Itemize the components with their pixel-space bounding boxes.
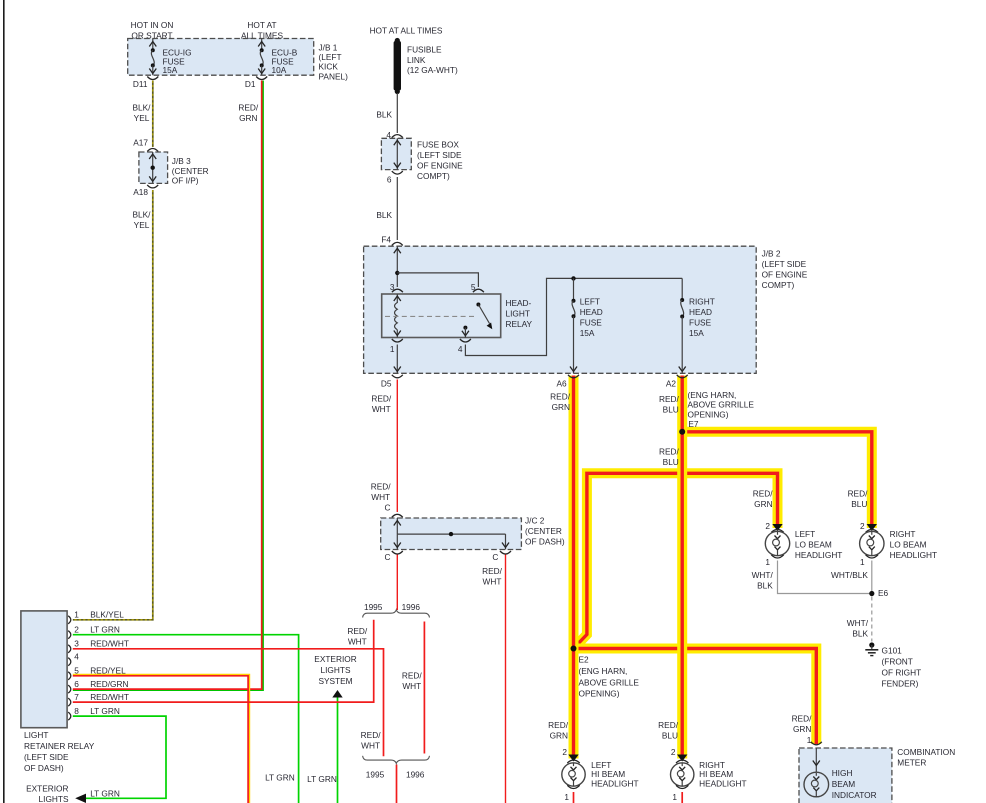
pin 1 retainer xyxy=(68,616,71,624)
junction block J/B 2 box xyxy=(364,246,757,373)
svg-text:EXTERIOR: EXTERIOR xyxy=(26,784,68,794)
svg-text:LIGHTS: LIGHTS xyxy=(321,665,351,675)
svg-text:LIGHT: LIGHT xyxy=(24,730,48,740)
combination meter box xyxy=(799,748,892,803)
svg-text:YEL: YEL xyxy=(134,113,150,123)
relay box (headlight relay) xyxy=(382,294,501,338)
svg-text:1: 1 xyxy=(765,557,770,567)
svg-text:SYSTEM: SYSTEM xyxy=(318,676,352,686)
svg-text:C: C xyxy=(492,552,498,562)
svg-text:10A: 10A xyxy=(272,65,287,75)
svg-text:D1: D1 xyxy=(245,79,256,89)
svg-text:BLK: BLK xyxy=(376,110,392,120)
node E7 xyxy=(679,429,685,435)
svg-text:LT GRN: LT GRN xyxy=(265,773,295,783)
svg-text:E6: E6 xyxy=(878,588,889,598)
svg-text:RETAINER RELAY: RETAINER RELAY xyxy=(24,741,95,751)
svg-text:FUSIBLE: FUSIBLE xyxy=(407,45,442,55)
svg-text:RED/: RED/ xyxy=(848,489,869,499)
wire RED/BLU A2 to right hi beam (highlighted) xyxy=(677,376,687,759)
svg-text:(LEFT: (LEFT xyxy=(319,52,342,62)
svg-text:BLK/: BLK/ xyxy=(133,210,152,220)
svg-text:2: 2 xyxy=(562,747,567,757)
junction connector J/C 2 box xyxy=(381,518,522,550)
relay LIGHT RETAINER RELAY box xyxy=(21,611,67,728)
svg-text:2: 2 xyxy=(765,521,770,531)
svg-text:A18: A18 xyxy=(133,187,148,197)
svg-text:OPENING): OPENING) xyxy=(579,689,620,699)
wire RED/WHT J/C2 right C down xyxy=(505,554,507,803)
fuse ECU-B 10A xyxy=(256,39,267,80)
wire RED/GRN A6 to left hi beam (highlighted) xyxy=(569,376,579,759)
svg-text:15A: 15A xyxy=(163,65,178,75)
svg-text:GRN: GRN xyxy=(552,402,570,412)
wire BLK/YEL D11-A17 xyxy=(152,81,154,148)
svg-text:HEADLIGHT: HEADLIGHT xyxy=(591,779,638,789)
svg-text:J/B 3: J/B 3 xyxy=(172,156,191,166)
relay switch xyxy=(462,303,492,338)
bracket 1995/1996 merge (bottom) xyxy=(363,756,430,764)
svg-text:LT GRN: LT GRN xyxy=(90,706,120,716)
svg-text:RED/GRN: RED/GRN xyxy=(90,679,128,689)
svg-text:GRN: GRN xyxy=(550,731,568,741)
svg-text:J/B 1: J/B 1 xyxy=(319,42,338,52)
svg-text:BLK: BLK xyxy=(852,629,868,639)
pin 8 retainer xyxy=(68,712,71,720)
svg-text:A6: A6 xyxy=(556,379,567,389)
fuse ECU-IG 15A xyxy=(147,39,158,80)
ground G101 xyxy=(865,642,878,655)
svg-text:OF RIGHT: OF RIGHT xyxy=(882,668,922,678)
svg-text:6: 6 xyxy=(387,174,392,184)
svg-text:OF ENGINE: OF ENGINE xyxy=(417,161,463,171)
wire RED/WHT pin7 up to 1995 branch xyxy=(73,620,374,702)
junction block J/B 3 box xyxy=(139,152,168,183)
svg-text:BLU: BLU xyxy=(663,404,679,414)
svg-text:HOT AT ALL TIMES: HOT AT ALL TIMES xyxy=(370,26,443,36)
svg-text:BLK/: BLK/ xyxy=(133,103,152,113)
svg-text:RED/: RED/ xyxy=(371,482,392,492)
svg-text:BLU: BLU xyxy=(663,457,679,467)
svg-text:EXTERIOR: EXTERIOR xyxy=(314,654,356,664)
svg-text:WHT: WHT xyxy=(361,741,380,751)
wire RED/WHT D5 to J/C2 xyxy=(396,380,398,513)
svg-text:COMBINATION: COMBINATION xyxy=(897,747,955,757)
page left border xyxy=(3,0,5,803)
svg-text:PANEL): PANEL) xyxy=(319,71,349,81)
svg-text:D5: D5 xyxy=(381,379,392,389)
node E6 xyxy=(869,591,874,596)
svg-text:RED/: RED/ xyxy=(482,566,503,576)
svg-text:COMPT): COMPT) xyxy=(417,171,450,181)
svg-text:RED/: RED/ xyxy=(659,446,680,456)
svg-text:1995: 1995 xyxy=(366,769,385,779)
svg-text:WHT/: WHT/ xyxy=(847,618,869,628)
svg-text:OPENING): OPENING) xyxy=(688,409,729,419)
svg-text:LINK: LINK xyxy=(407,55,426,65)
svg-text:INDICATOR: INDICATOR xyxy=(832,790,877,800)
bracket 1995/1996 split (top) xyxy=(363,610,430,618)
svg-text:2: 2 xyxy=(860,521,865,531)
svg-text:RED/: RED/ xyxy=(238,103,259,113)
svg-text:OF ENGINE: OF ENGINE xyxy=(762,270,808,280)
svg-text:1995: 1995 xyxy=(364,602,383,612)
svg-text:(FRONT: (FRONT xyxy=(882,657,913,667)
svg-text:WHT: WHT xyxy=(402,681,421,691)
arrow exterior lights system (up) xyxy=(332,690,342,698)
svg-text:1: 1 xyxy=(807,735,812,745)
svg-text:7: 7 xyxy=(74,692,79,702)
svg-text:C: C xyxy=(385,503,391,513)
wire RED/WHT 1996 branch xyxy=(423,622,425,754)
svg-text:(12 GA-WHT): (12 GA-WHT) xyxy=(407,65,458,75)
svg-text:D11: D11 xyxy=(133,79,148,89)
wire RED/BLU E7 to right lo beam (highlighted) xyxy=(682,432,872,528)
svg-text:(LEFT SIDE: (LEFT SIDE xyxy=(24,752,69,762)
svg-text:ABOVE GRRILLE: ABOVE GRRILLE xyxy=(688,400,755,410)
svg-text:LO BEAM: LO BEAM xyxy=(890,540,927,550)
wire WHT/BLK E6 to G101 (dashed) xyxy=(871,597,873,642)
fusible link 12 GA-WHT xyxy=(394,38,401,94)
wire relay pin1 to D5 xyxy=(394,345,401,374)
svg-text:LT GRN: LT GRN xyxy=(90,625,120,635)
svg-text:HEAD: HEAD xyxy=(580,307,603,317)
svg-text:RED/: RED/ xyxy=(658,720,679,730)
svg-text:4: 4 xyxy=(458,344,463,354)
svg-text:LT GRN: LT GRN xyxy=(307,774,337,784)
svg-text:FUSE: FUSE xyxy=(580,318,603,328)
wire LT GRN exterior lights system xyxy=(337,697,339,803)
svg-text:KICK: KICK xyxy=(319,62,339,72)
svg-text:RED/: RED/ xyxy=(548,720,569,730)
svg-text:HEADLIGHT: HEADLIGHT xyxy=(699,779,746,789)
svg-text:RED/: RED/ xyxy=(550,392,571,402)
wire RED/GRN branch to left lo beam (highlighted) xyxy=(574,473,778,648)
lamp HIGH BEAM INDICATOR xyxy=(804,748,829,797)
svg-text:RED/: RED/ xyxy=(792,713,813,723)
svg-text:BLK/YEL: BLK/YEL xyxy=(90,610,124,620)
arrow exterior lights (left) xyxy=(75,794,86,803)
svg-text:5: 5 xyxy=(74,666,79,676)
lamp RIGHT HI BEAM HEADLIGHT xyxy=(671,747,694,803)
wire F4 to relay pin 3 xyxy=(394,246,401,287)
pin 6 retainer xyxy=(68,685,71,693)
svg-text:HIGH: HIGH xyxy=(832,768,853,778)
svg-text:2: 2 xyxy=(74,625,79,635)
svg-text:LEFT: LEFT xyxy=(795,529,815,539)
svg-text:(ENG HARN,: (ENG HARN, xyxy=(579,666,628,676)
node E2 xyxy=(571,646,577,652)
svg-text:HOT IN ON: HOT IN ON xyxy=(131,20,174,30)
svg-text:FUSE BOX: FUSE BOX xyxy=(417,140,459,150)
svg-text:(CENTER: (CENTER xyxy=(172,166,209,176)
svg-text:BLU: BLU xyxy=(851,499,867,509)
svg-text:HEAD-: HEAD- xyxy=(506,298,532,308)
svg-text:WHT: WHT xyxy=(483,576,502,586)
svg-text:E2: E2 xyxy=(579,655,590,665)
svg-text:C: C xyxy=(385,552,391,562)
svg-text:2: 2 xyxy=(671,747,676,757)
wire LT GRN pin8 to exterior lights arrow xyxy=(73,716,166,798)
svg-text:1: 1 xyxy=(672,792,677,802)
fuse RIGHT HEAD 15A xyxy=(679,278,686,373)
svg-text:1996: 1996 xyxy=(406,769,425,779)
svg-text:(LEFT SIDE: (LEFT SIDE xyxy=(417,150,462,160)
svg-text:RED/: RED/ xyxy=(659,394,680,404)
svg-text:1: 1 xyxy=(74,610,79,620)
svg-text:RED/: RED/ xyxy=(347,626,368,636)
svg-text:WHT: WHT xyxy=(372,404,391,414)
svg-text:GRN: GRN xyxy=(793,724,811,734)
svg-text:HOT AT: HOT AT xyxy=(247,20,276,30)
svg-text:(CENTER: (CENTER xyxy=(525,526,562,536)
svg-text:(ENG HARN,: (ENG HARN, xyxy=(688,390,737,400)
svg-text:FENDER): FENDER) xyxy=(882,679,919,689)
fuse LEFT HEAD 15A xyxy=(570,278,577,373)
svg-text:4: 4 xyxy=(74,652,79,662)
svg-text:1: 1 xyxy=(860,557,865,567)
lamp LEFT LO BEAM HEADLIGHT xyxy=(765,521,789,567)
wire RED/GRN E2 to high beam indicator (highlighted) xyxy=(574,649,817,745)
svg-text:LT GRN: LT GRN xyxy=(90,789,120,799)
svg-text:YEL: YEL xyxy=(134,220,150,230)
svg-text:WHT: WHT xyxy=(348,636,367,646)
wire junction to relay pin 5 xyxy=(397,273,478,287)
pin 4 retainer xyxy=(68,658,71,666)
wire BLK fusible link to fuse box xyxy=(396,93,398,133)
svg-text:G101: G101 xyxy=(882,646,903,656)
svg-text:HEADLIGHT: HEADLIGHT xyxy=(795,550,842,560)
svg-text:RED/: RED/ xyxy=(361,730,382,740)
wire RED/YEL pin5 xyxy=(73,674,250,803)
svg-text:LO BEAM: LO BEAM xyxy=(795,540,832,550)
svg-text:J/B 2: J/B 2 xyxy=(762,249,781,259)
relay armature dashed link xyxy=(385,315,474,317)
wire RED/WHT below merge bracket xyxy=(396,765,398,803)
fuse box (left side of engine compt) xyxy=(381,138,411,169)
wire BLK fuse box to F4 xyxy=(396,177,398,240)
svg-text:3: 3 xyxy=(74,639,79,649)
svg-text:BLK: BLK xyxy=(757,581,773,591)
lamp LEFT HI BEAM HEADLIGHT xyxy=(562,747,585,803)
svg-text:RED/: RED/ xyxy=(402,671,423,681)
wire RED/WHT pin3 down to 1995/96 merge xyxy=(73,649,384,757)
lamp RIGHT LO BEAM HEADLIGHT xyxy=(860,521,884,567)
pin 7 retainer xyxy=(68,698,71,706)
svg-text:BLK: BLK xyxy=(376,210,392,220)
svg-text:COMPT): COMPT) xyxy=(762,280,795,290)
svg-text:1: 1 xyxy=(564,792,569,802)
svg-text:1996: 1996 xyxy=(402,602,421,612)
svg-text:RIGHT: RIGHT xyxy=(890,529,916,539)
svg-text:RIGHT: RIGHT xyxy=(689,297,715,307)
svg-text:OF DASH): OF DASH) xyxy=(525,537,565,547)
svg-text:GRN: GRN xyxy=(239,113,257,123)
wire BLK/YEL A18-pin1 xyxy=(73,190,153,620)
svg-text:ABOVE GRILLE: ABOVE GRILLE xyxy=(579,677,640,687)
svg-text:WHT/BLK: WHT/BLK xyxy=(831,570,868,580)
svg-text:A2: A2 xyxy=(666,379,677,389)
svg-text:1: 1 xyxy=(390,344,395,354)
wire LT GRN pin2 to exterior lights xyxy=(73,635,299,803)
junction block J/B 1 box xyxy=(128,39,314,76)
svg-text:FUSE: FUSE xyxy=(689,318,712,328)
wire RED/WHT J/C2 left C to split bracket xyxy=(396,554,398,610)
svg-text:HEAD: HEAD xyxy=(689,307,712,317)
svg-text:LIGHTS: LIGHTS xyxy=(39,794,69,803)
svg-text:8: 8 xyxy=(74,706,79,716)
svg-text:A17: A17 xyxy=(133,138,148,148)
svg-text:RED/WHT: RED/WHT xyxy=(90,639,129,649)
svg-text:HEADLIGHT: HEADLIGHT xyxy=(890,550,937,560)
svg-text:OF I/P): OF I/P) xyxy=(172,176,199,186)
pin 3 retainer xyxy=(68,645,71,653)
svg-text:RED/: RED/ xyxy=(371,394,392,404)
svg-text:WHT: WHT xyxy=(371,492,390,502)
svg-text:BEAM: BEAM xyxy=(832,779,856,789)
wire WHT/BLK lo beams to E6 xyxy=(778,561,872,594)
svg-text:GRN: GRN xyxy=(754,499,772,509)
pin 2 retainer xyxy=(68,631,71,639)
wire relay pin4 to head fuses xyxy=(465,278,682,355)
svg-text:15A: 15A xyxy=(580,328,595,338)
svg-text:RED/WHT: RED/WHT xyxy=(90,692,129,702)
svg-text:(LEFT SIDE: (LEFT SIDE xyxy=(762,259,807,269)
svg-text:RED/YEL: RED/YEL xyxy=(90,666,126,676)
svg-text:RED/: RED/ xyxy=(753,489,774,499)
svg-text:WHT/: WHT/ xyxy=(752,570,774,580)
pin 5 retainer xyxy=(68,672,71,680)
svg-text:BLU: BLU xyxy=(662,731,678,741)
svg-text:OF DASH): OF DASH) xyxy=(24,763,64,773)
svg-text:LIGHT: LIGHT xyxy=(506,309,530,319)
svg-text:6: 6 xyxy=(74,679,79,689)
svg-text:J/C 2: J/C 2 xyxy=(525,516,545,526)
relay coil xyxy=(394,294,401,338)
svg-text:LEFT: LEFT xyxy=(580,297,600,307)
svg-text:RELAY: RELAY xyxy=(506,319,533,329)
svg-text:15A: 15A xyxy=(689,328,704,338)
svg-text:F4: F4 xyxy=(381,235,391,245)
wire RED/GRN D1-pin6 xyxy=(73,81,263,691)
svg-text:METER: METER xyxy=(897,758,926,768)
svg-text:E7: E7 xyxy=(688,419,699,429)
